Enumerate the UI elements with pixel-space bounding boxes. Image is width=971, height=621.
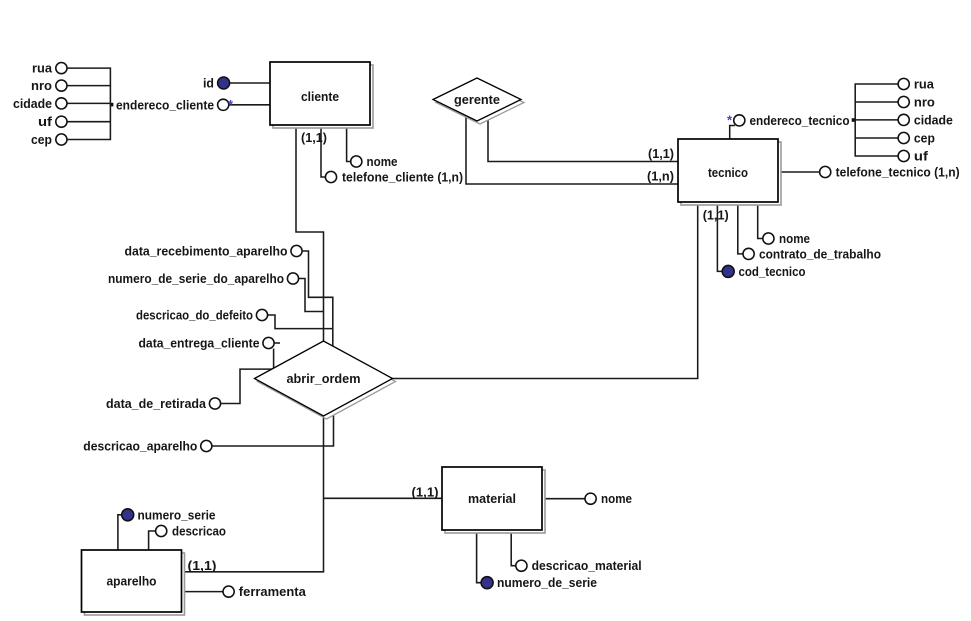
svg-text:numero_serie: numero_serie [138, 507, 216, 522]
wire telefone_tecnico [778, 171, 820, 173]
svg-text:aparelho: aparelho [107, 574, 157, 589]
relationship gerente [433, 78, 524, 124]
attribute nro (tecnico) [898, 95, 935, 110]
entity tecnico [678, 139, 781, 205]
wire descricao_material-material [511, 530, 516, 566]
attribute uf (cliente) [38, 114, 67, 129]
label (1,1) aparelho [188, 558, 217, 573]
svg-text:cod_tecnico: cod_tecnico [739, 264, 806, 279]
attribute id (key) [203, 76, 230, 91]
attribute telefone_cliente (1,n) [325, 170, 463, 185]
wire descricao-aparelho [149, 531, 156, 550]
attribute nome (material) [585, 491, 632, 506]
svg-text:abrir_ordem: abrir_ordem [287, 371, 361, 386]
attribute numero_serie (key, aparelho) [122, 507, 216, 522]
attribute descricao_aparelho [83, 439, 212, 454]
wire abrir_ordem to material and aparelho [182, 416, 442, 572]
wire nome-material [542, 498, 585, 500]
attribute cod_tecnico (key) [722, 264, 805, 279]
svg-text:descricao: descricao [172, 524, 226, 539]
svg-text:cep: cep [914, 131, 935, 146]
attribute rua (tecnico) [898, 77, 935, 92]
svg-text:cep: cep [31, 132, 52, 147]
attribute nome (cliente) [351, 154, 398, 169]
attribute endereco_tecnico (composite) [727, 113, 855, 128]
wire nome-tecnico [758, 202, 763, 239]
attribute cep (cliente) [31, 132, 67, 147]
svg-text:rua: rua [32, 61, 53, 76]
attribute cidade (cliente) [13, 96, 67, 111]
svg-text:endereco_cliente: endereco_cliente [116, 97, 214, 112]
attribute descricao_do_defeito [136, 308, 268, 323]
wire gerente (1,1) to tecnico [488, 110, 678, 162]
attribute nro (cliente) [31, 78, 67, 93]
wire nome-cliente [347, 125, 351, 162]
attribute rua (cliente) [32, 61, 67, 76]
svg-text:(1,1): (1,1) [648, 146, 674, 161]
svg-text:telefone_tecnico (1,n): telefone_tecnico (1,n) [836, 165, 960, 180]
svg-text:nome: nome [367, 154, 398, 169]
svg-text:descricao_aparelho: descricao_aparelho [83, 439, 197, 454]
wire numero_serie-aparelho [118, 515, 122, 550]
entity cliente [270, 62, 373, 128]
svg-text:nro: nro [31, 78, 52, 93]
svg-text:data_de_retirada: data_de_retirada [106, 396, 207, 411]
attribute descricao_material [516, 558, 642, 573]
wire data_de_retirada to abrir_ordem [221, 369, 274, 403]
svg-text:nro: nro [914, 95, 935, 110]
attribute data_recebimento_aparelho [125, 244, 303, 259]
svg-text:(1,1): (1,1) [412, 485, 439, 500]
svg-text:(1,1): (1,1) [188, 558, 217, 573]
svg-text:(1,1): (1,1) [301, 130, 327, 145]
svg-text:cliente: cliente [301, 89, 339, 104]
svg-text:descricao_material: descricao_material [532, 558, 642, 573]
wire endereco_cliente sub-attribute rail [67, 68, 110, 139]
svg-text:id: id [203, 76, 214, 91]
wire data_entrega_cliente to abrir_ordem [274, 343, 280, 369]
label (1,1) tecnico-abrir_ordem [703, 208, 729, 223]
attribute data_de_retirada [106, 396, 221, 411]
attribute cep (tecnico) [898, 131, 935, 146]
svg-text:contrato_de_trabalho: contrato_de_trabalho [759, 246, 881, 261]
attribute uf (tecnico) [898, 149, 929, 164]
svg-text:cidade: cidade [914, 112, 953, 127]
wire descricao_aparelho to abrir_ordem [212, 410, 334, 447]
entity aparelho [82, 550, 185, 615]
attribute descricao (aparelho) [156, 524, 226, 539]
svg-text:data_entrega_cliente: data_entrega_cliente [139, 336, 260, 351]
wire contrato_de_trabalho-tecnico [738, 202, 743, 254]
attribute cidade (tecnico) [898, 112, 953, 127]
attribute telefone_tecnico (1,n) [820, 165, 960, 180]
wire data_recebimento_aparelho to abrir_ordem [302, 251, 333, 346]
label (1,1) gerente-tecnico [648, 146, 674, 161]
wire gerente (1,n) to tecnico [466, 113, 678, 184]
attribute numero_de_serie_do_aparelho [108, 271, 299, 286]
svg-text:material: material [468, 491, 516, 506]
svg-text:rua: rua [914, 77, 935, 92]
wire endereco_cliente-cliente [229, 104, 270, 106]
svg-text:nome: nome [601, 491, 632, 506]
attribute nome (tecnico) [763, 231, 810, 246]
wire tecnico to abrir_ordem [393, 202, 698, 379]
svg-text:(1,n): (1,n) [647, 169, 674, 184]
attribute contrato_de_trabalho [743, 246, 881, 261]
svg-text:nome: nome [779, 231, 810, 246]
wire ferramenta-aparelho [182, 591, 223, 593]
svg-text:endereco_tecnico: endereco_tecnico [750, 113, 850, 128]
attribute data_entrega_cliente [139, 336, 275, 351]
svg-text:ferramenta: ferramenta [239, 584, 307, 599]
svg-text:tecnico: tecnico [708, 165, 748, 180]
svg-text:numero_de_serie: numero_de_serie [497, 575, 597, 590]
attribute numero_de_serie (key, material) [481, 575, 597, 590]
wire numero_de_serie_do_aparelho to abrir_ordem [299, 279, 324, 312]
wire descricao_do_defeito to abrir_ordem [268, 315, 333, 329]
wire cod_tecnico-tecnico [717, 202, 722, 271]
attribute endereco_cliente (composite) [110, 97, 234, 112]
label (1,n) gerente-tecnico [647, 169, 674, 184]
svg-text:gerente: gerente [454, 92, 500, 107]
wire endereco_tecnico sub-attribute rail [855, 84, 898, 156]
svg-text:cidade: cidade [13, 96, 52, 111]
wire endereco_tecnico-tecnico [730, 126, 735, 140]
svg-text:telefone_cliente (1,n): telefone_cliente (1,n) [342, 170, 463, 185]
svg-text:numero_de_serie_do_aparelho: numero_de_serie_do_aparelho [108, 271, 284, 286]
svg-text:descricao_do_defeito: descricao_do_defeito [136, 308, 253, 323]
svg-text:uf: uf [914, 149, 929, 164]
wire telefone_cliente [321, 125, 325, 177]
wire cliente to abrir_ordem [296, 125, 324, 341]
relationship abrir_ordem [255, 341, 396, 419]
wire id-cliente [229, 82, 270, 84]
attribute ferramenta [223, 584, 307, 599]
wire numero_de_serie-material [477, 530, 481, 583]
svg-text:data_recebimento_aparelho: data_recebimento_aparelho [125, 244, 288, 259]
svg-text:(1,1): (1,1) [703, 208, 729, 223]
entity material [442, 467, 545, 533]
label (1,1) material [412, 485, 439, 500]
svg-text:uf: uf [38, 114, 53, 129]
label (1,1) cliente [301, 130, 327, 145]
